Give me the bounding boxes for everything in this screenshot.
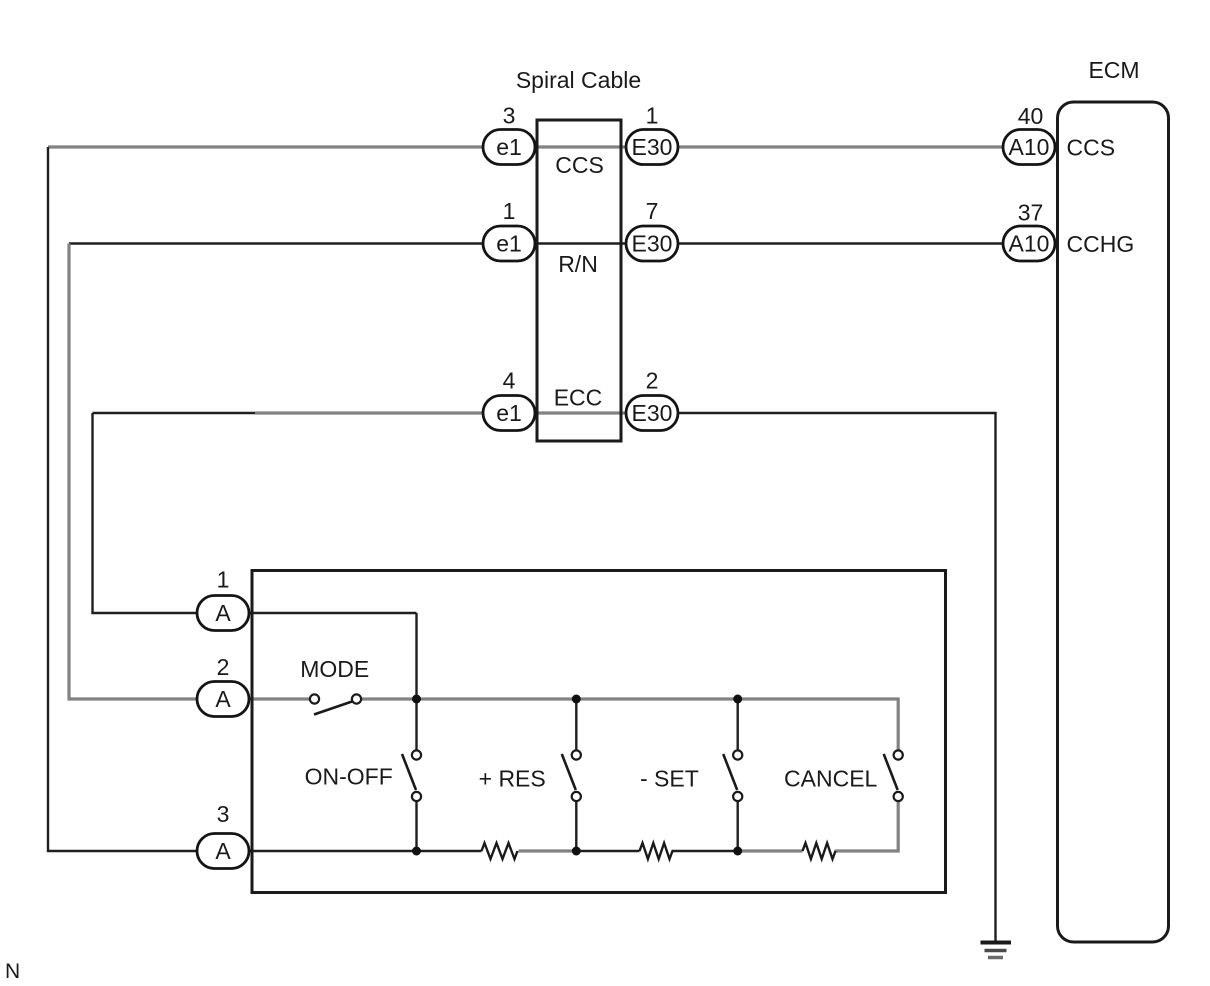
- resistor R2: [640, 843, 673, 859]
- wire ECC horizontal left black part: [93, 412, 256, 414]
- wire ECC through spiral cable box: [535, 411, 627, 414]
- connector A pin1: [197, 596, 249, 631]
- svg-text:- SET: - SET: [640, 766, 699, 792]
- switch ON-OFF: [402, 750, 421, 801]
- svg-text:7: 7: [646, 198, 659, 224]
- svg-text:40: 40: [1018, 103, 1044, 129]
- connector e1 pin1: [483, 226, 535, 261]
- wire SET branch lower: [737, 801, 739, 851]
- wire MODE row right contact to CANCEL corner: [361, 699, 898, 750]
- connector e1 pin4: [483, 396, 535, 431]
- wire ECC E30 to ground drop: [677, 413, 996, 942]
- junction dot bottom/SET: [733, 847, 742, 856]
- wire bottom row R2 to SET junction: [672, 850, 738, 852]
- svg-text:A: A: [215, 600, 231, 626]
- wire ON-OFF branch lower: [415, 801, 417, 851]
- resistor R3: [803, 843, 836, 859]
- wire ON-OFF branch upper: [415, 613, 417, 750]
- svg-text:ECM: ECM: [1088, 57, 1139, 83]
- switch RES: [562, 750, 581, 801]
- connector e1 pin3: [483, 130, 535, 165]
- wire RN vertical down to A2 row: [69, 244, 198, 700]
- svg-text:CCHG: CCHG: [1067, 231, 1135, 257]
- switch MODE: [310, 694, 361, 714]
- svg-text:3: 3: [217, 801, 230, 827]
- junction dot MODE/SET: [733, 695, 742, 704]
- wire ECC horizontal left gray part: [255, 411, 484, 414]
- wire CCS vertical left down to A3 row: [48, 147, 198, 851]
- svg-text:MODE: MODE: [300, 656, 369, 682]
- svg-text:E30: E30: [632, 400, 673, 426]
- wire CCS horizontal left (e1 pin3 to left bend): [48, 145, 484, 148]
- junction dot bottom/ON-OFF: [412, 847, 421, 856]
- junction dot bottom/RES: [572, 847, 581, 856]
- wire ECC vertical down to A1 row: [93, 413, 199, 613]
- wire CCS E30 to A10: [677, 145, 1004, 148]
- ECM box fill: [1058, 102, 1169, 942]
- svg-text:37: 37: [1018, 200, 1044, 226]
- wire RES branch upper: [575, 699, 577, 750]
- connector A pin2: [197, 682, 249, 717]
- wire A1 row into box: [248, 612, 417, 614]
- svg-text:3: 3: [503, 103, 516, 129]
- switch assembly box outline: [252, 571, 946, 893]
- svg-text:2: 2: [646, 368, 659, 394]
- wire RN horizontal left (e1 pin1 to left bend): [69, 242, 484, 244]
- wire bottom row R1 to RES junction: [519, 849, 577, 852]
- svg-text:e1: e1: [496, 400, 522, 426]
- svg-text:4: 4: [503, 368, 516, 394]
- svg-text:A: A: [215, 838, 231, 864]
- svg-text:e1: e1: [496, 231, 522, 257]
- svg-text:1: 1: [646, 103, 659, 129]
- wire bottom row SET junction to R3: [738, 849, 803, 852]
- junction dot MODE/ON-OFF: [412, 695, 421, 704]
- spiral cable box fill: [537, 120, 621, 441]
- svg-text:CCS: CCS: [1067, 135, 1116, 161]
- wire MODE row A2 to left contact: [248, 697, 311, 700]
- svg-text:ECC: ECC: [554, 385, 603, 411]
- svg-text:CANCEL: CANCEL: [784, 766, 878, 792]
- connector E30 pin1: [626, 130, 678, 165]
- spiral cable box outline: [537, 120, 621, 441]
- svg-text:E30: E30: [632, 231, 673, 257]
- svg-text:Spiral Cable: Spiral Cable: [516, 67, 641, 93]
- svg-text:A10: A10: [1009, 231, 1050, 257]
- switch assembly box fill: [252, 571, 946, 893]
- svg-text:N: N: [5, 960, 20, 983]
- switch SET: [723, 750, 742, 801]
- svg-text:1: 1: [503, 198, 516, 224]
- svg-text:R/N: R/N: [558, 251, 598, 277]
- connector A10 pin37: [1003, 226, 1055, 261]
- svg-text:E30: E30: [632, 134, 673, 160]
- wire CCS through spiral cable box: [535, 145, 627, 148]
- wire CCHG E30 to A10: [677, 242, 1004, 244]
- svg-text:A10: A10: [1009, 134, 1050, 160]
- svg-text:+ RES: + RES: [479, 766, 546, 792]
- resistor R1: [482, 843, 518, 859]
- connector A pin3: [197, 834, 249, 869]
- svg-text:e1: e1: [496, 134, 522, 160]
- ECM box outline: [1058, 102, 1169, 942]
- svg-text:1: 1: [217, 567, 230, 593]
- wire SET branch upper: [737, 699, 739, 750]
- wire CANCEL branch lower: [835, 801, 899, 851]
- wire RN through spiral cable box: [535, 242, 627, 244]
- wire bottom row RES junction to R2: [576, 850, 639, 852]
- svg-text:A: A: [215, 686, 231, 712]
- svg-text:CCS: CCS: [555, 152, 604, 178]
- junction dot MODE/RES: [572, 695, 581, 704]
- wire bottom row A3 to R1: [248, 850, 482, 852]
- wire RES branch lower: [575, 801, 577, 851]
- connector E30 pin2: [626, 396, 678, 431]
- ground: [981, 943, 1012, 958]
- svg-text:2: 2: [217, 654, 230, 680]
- svg-text:ON-OFF: ON-OFF: [305, 764, 393, 790]
- connector E30 pin7: [626, 226, 678, 261]
- switch CANCEL: [884, 750, 903, 801]
- connector A10 pin40: [1003, 130, 1055, 165]
